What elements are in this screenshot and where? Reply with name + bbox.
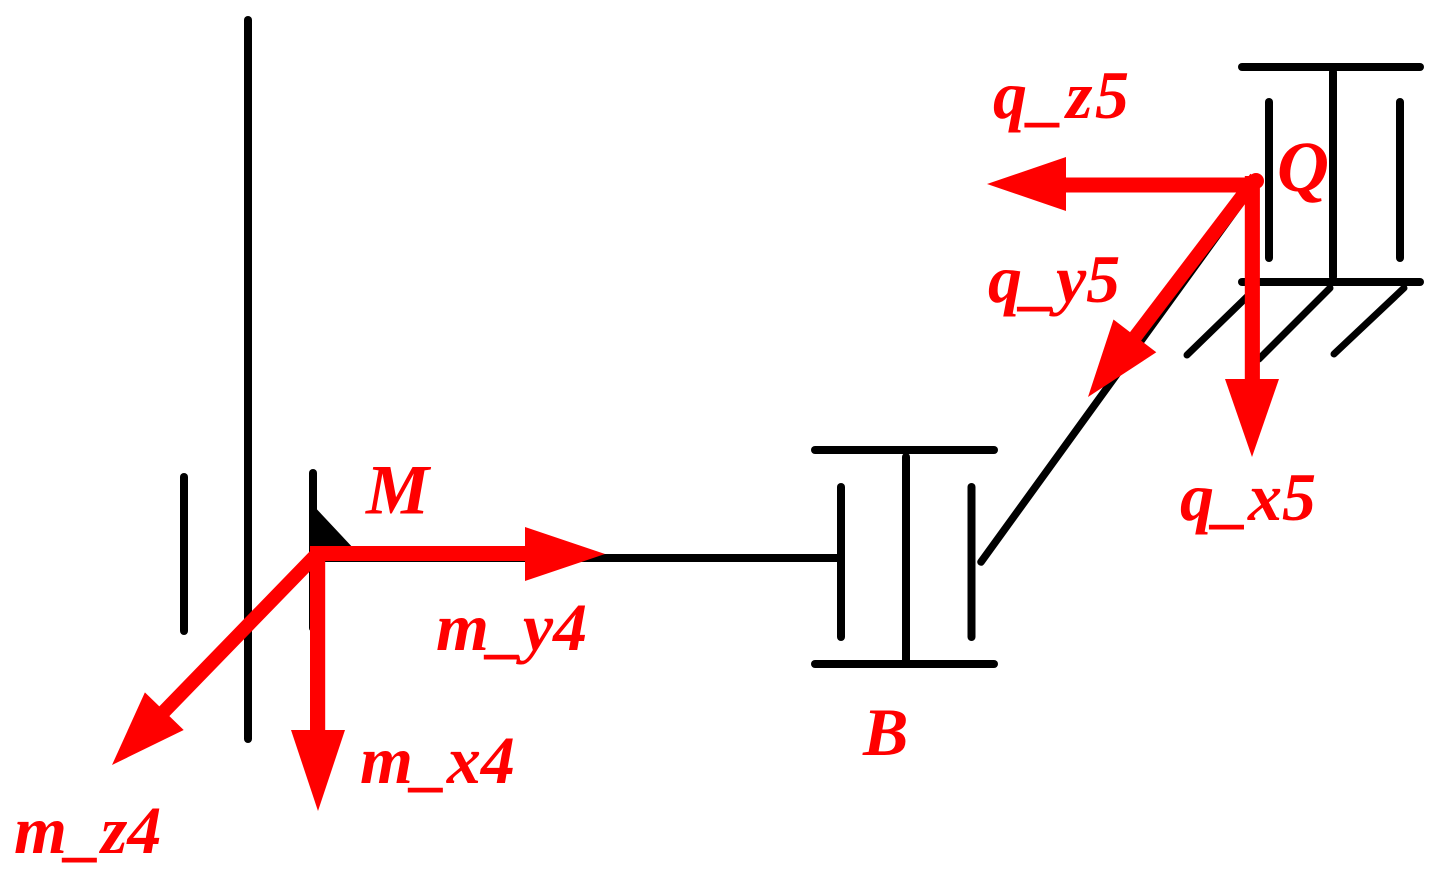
force arrow q_y5 — [1088, 178, 1256, 397]
shaft 4 axis (long vertical line) — [244, 20, 252, 739]
gear Q center line — [1329, 72, 1337, 277]
gear M left flank line — [180, 477, 188, 631]
svg-text:Q: Q — [1277, 127, 1329, 207]
gear Q left flank line — [1265, 102, 1273, 258]
wire shaft M to B — [316, 554, 841, 562]
svg-text:B: B — [862, 694, 908, 770]
svg-text:q_y5: q_y5 — [988, 241, 1120, 317]
svg-text:q_x5: q_x5 — [1180, 459, 1316, 535]
gear B top line — [815, 446, 994, 454]
force arrow q_x5 — [1225, 176, 1279, 457]
ground hatch 1 — [1187, 288, 1256, 355]
svg-text:m_y4: m_y4 — [436, 589, 587, 665]
ground hatch 3 — [1334, 288, 1404, 354]
gear B right flank line — [968, 487, 976, 637]
ground hatch 2 — [1259, 288, 1330, 359]
gear M right flank line — [309, 473, 317, 628]
gear Q right flank line — [1396, 102, 1404, 258]
gear Q top line — [1242, 63, 1420, 71]
force arrow q_z5 — [987, 157, 1256, 211]
gear B bottom line — [815, 660, 994, 668]
wire diagonal shaft B to Q — [981, 182, 1256, 562]
svg-text:M: M — [365, 452, 432, 530]
svg-text:q_z5: q_z5 — [993, 57, 1131, 133]
gear Q bottom line — [1242, 278, 1420, 286]
node Q dot — [1248, 173, 1264, 189]
moment arrow m_y4 — [311, 527, 605, 581]
svg-text:m_x4: m_x4 — [360, 722, 515, 798]
gear B left flank line — [837, 487, 845, 637]
svg-text:m_z4: m_z4 — [14, 792, 161, 868]
wedge at node M — [311, 503, 355, 550]
moment arrow m_z4 — [112, 555, 316, 765]
gear B center line — [902, 457, 910, 663]
moment arrow m_x4 — [291, 546, 345, 811]
